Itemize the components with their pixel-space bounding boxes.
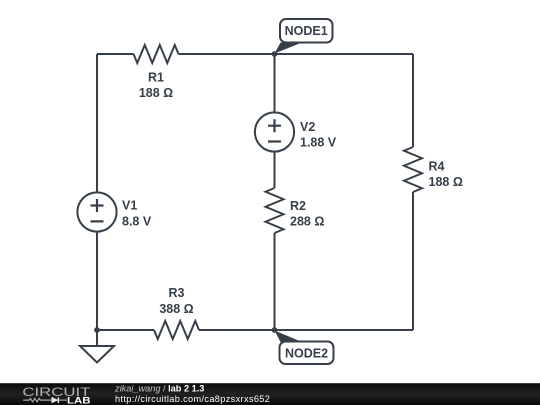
ground <box>80 330 114 363</box>
svg-text:R1: R1 <box>148 71 164 85</box>
svg-text:http://circuitlab.com/ca8pzsxr: http://circuitlab.com/ca8pzsxrxs652 <box>115 394 270 404</box>
wire top right segment (R1 to top-right corner) <box>179 53 414 55</box>
node NODE1 junction dot <box>272 51 278 57</box>
resistor R1 <box>134 45 179 63</box>
wire left vertical lower (V1 to bottom-left junction) <box>96 233 98 331</box>
svg-text:NODE1: NODE1 <box>285 24 328 38</box>
wire top left segment (corner to R1) <box>97 53 134 55</box>
svg-text:188 Ω: 188 Ω <box>429 175 463 189</box>
svg-text:zikai_wang / lab 2 1.3: zikai_wang / lab 2 1.3 <box>114 384 204 394</box>
svg-text:V2: V2 <box>300 120 315 134</box>
wire left vertical upper (top-left corner to V1) <box>96 54 98 192</box>
svg-text:NODE2: NODE2 <box>285 346 328 360</box>
svg-text:R2: R2 <box>290 199 306 213</box>
wire bottom right segment (R3 to bottom-right corner) <box>199 329 413 331</box>
voltage source V2 <box>255 112 294 151</box>
wire right vertical lower (R4 to bottom-right corner) <box>412 192 414 330</box>
wire right vertical upper (top-right corner to R4) <box>412 54 414 147</box>
wire middle vertical upper (NODE1 to V2) <box>274 54 276 112</box>
wire middle between V2 and R2 <box>274 153 276 189</box>
voltage source V1 <box>77 192 116 231</box>
resistor R4 <box>404 147 422 192</box>
resistor R3 <box>154 321 199 339</box>
svg-text:V1: V1 <box>122 199 137 213</box>
wire middle vertical lower (R2 to NODE2) <box>274 233 276 330</box>
svg-text:8.8 V: 8.8 V <box>122 215 152 229</box>
svg-text:1.88 V: 1.88 V <box>300 136 337 150</box>
junction dot bottom-left (ground node) <box>94 327 100 333</box>
node label NODE1 <box>275 19 333 54</box>
svg-text:188 Ω: 188 Ω <box>139 86 173 100</box>
svg-text:LAB: LAB <box>67 395 91 405</box>
svg-text:R4: R4 <box>429 160 445 174</box>
svg-text:388 Ω: 388 Ω <box>159 302 193 316</box>
wire bottom left segment (ground junction to R3) <box>97 329 154 331</box>
svg-text:288 Ω: 288 Ω <box>290 215 324 229</box>
node label NODE2 <box>275 331 334 365</box>
resistor R2 <box>266 188 284 233</box>
node NODE2 junction dot <box>272 327 278 333</box>
CircuitLab logo resistor-diode symbol <box>23 397 67 403</box>
svg-text:R3: R3 <box>169 286 185 300</box>
